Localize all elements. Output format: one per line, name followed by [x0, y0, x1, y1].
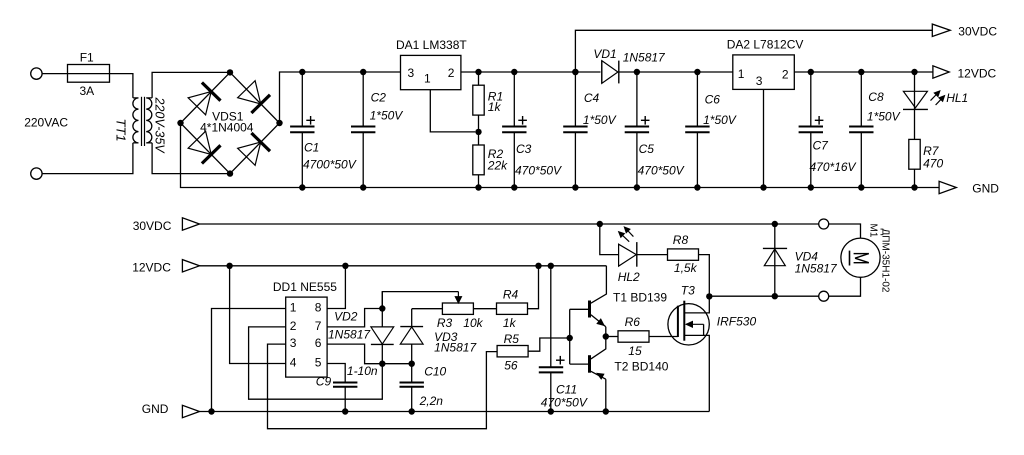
wire DA1 output to rail: [461, 71, 479, 73]
transformer TT1 primary winding: [133, 98, 139, 143]
capacitor C2 1*50V: [362, 72, 364, 127]
transistor T1 BD139: [588, 301, 591, 318]
node VD4 bottom junction: [772, 293, 778, 299]
potentiometer R3 10k: [442, 303, 473, 314]
svg-text:М1: М1: [868, 224, 879, 238]
node R1/R2 junction: [475, 129, 481, 135]
wire R3 wiper feedback: [382, 292, 458, 309]
svg-text:1N5817: 1N5817: [623, 51, 666, 65]
capacitor C4 1*50V: [574, 72, 576, 127]
resistor R6 15: [618, 331, 649, 342]
node VD4 top junction: [772, 221, 778, 227]
wire pin7 to discharge node: [327, 309, 382, 327]
svg-text:R4: R4: [503, 288, 519, 302]
transformer TT1 secondary winding: [146, 98, 152, 143]
resistor R7 470: [914, 109, 916, 139]
node bridge bottom junction: [227, 170, 233, 176]
30VDC output arrow: [932, 24, 950, 36]
svg-text:C3: C3: [516, 142, 532, 156]
GND output arrow: [939, 181, 956, 193]
svg-text:8: 8: [315, 301, 322, 315]
node T1/T2 emitters junction: [603, 333, 609, 339]
wire ground rail bottom: [200, 411, 710, 413]
svg-text:GND: GND: [142, 402, 169, 416]
wire pin4 to 12VDC: [230, 266, 286, 364]
capacitor C9 1-10n: [333, 382, 357, 384]
svg-text:R5: R5: [504, 332, 520, 346]
svg-text:6: 6: [315, 336, 322, 350]
svg-text:C11: C11: [556, 383, 577, 397]
wire pin8 to 12VDC: [327, 266, 345, 309]
svg-text:T3: T3: [681, 284, 695, 298]
svg-text:4: 4: [290, 356, 297, 370]
svg-text:12VDC: 12VDC: [958, 67, 997, 81]
bridge diode D4 (bottom-right edge): [238, 142, 261, 165]
svg-text:ДПМ-35Н1-02: ДПМ-35Н1-02: [880, 229, 891, 293]
svg-text:7: 7: [315, 319, 322, 333]
svg-text:2: 2: [782, 67, 789, 81]
wire secondary top to bridge: [152, 72, 230, 98]
svg-text:3: 3: [290, 336, 297, 350]
motor connector terminal bottom: [819, 291, 829, 301]
svg-text:VD1: VD1: [593, 47, 616, 61]
node VD2 cathode / pin6 junction: [379, 361, 385, 367]
timer DD1 NE555: [286, 297, 327, 377]
svg-text:5: 5: [315, 356, 322, 370]
svg-text:1N5817: 1N5817: [795, 262, 838, 276]
svg-text:C9: C9: [316, 374, 332, 388]
bridge diode D3 (left-bottom edge): [188, 131, 211, 154]
LED HL1: [914, 72, 916, 109]
svg-text:GND: GND: [972, 181, 999, 195]
wire 30VDC line: [200, 223, 819, 225]
svg-text:1-10n: 1-10n: [347, 364, 378, 378]
svg-text:1: 1: [424, 72, 431, 86]
capacitor C10 2,2n: [411, 364, 413, 383]
diode VD1 1N5817: [601, 61, 603, 84]
regulator DA2 L7812CV: [733, 55, 795, 90]
resistor R8 1,5k: [637, 254, 668, 256]
junction dots ground rail bottom section: [208, 408, 214, 414]
svg-text:1,5k: 1,5k: [674, 261, 698, 275]
wire drain node to motor: [709, 295, 818, 297]
diode VD4 1N5817: [774, 224, 776, 296]
node T3 drain junction: [706, 293, 712, 299]
svg-text:1k: 1k: [503, 316, 517, 330]
svg-text:F1: F1: [80, 50, 94, 64]
wire 12VDC line: [200, 265, 607, 267]
wire 30VDC feed line: [575, 30, 932, 72]
svg-text:4700*50V: 4700*50V: [303, 158, 357, 172]
node VD3 anode / C10 junction: [409, 361, 415, 367]
wire base drive node: [569, 309, 571, 364]
resistor R5 56: [497, 346, 528, 357]
12VDC output arrow: [933, 66, 949, 78]
svg-text:2,2n: 2,2n: [419, 394, 444, 408]
capacitor C1 4700*50V: [301, 72, 303, 127]
node bridge top junction: [227, 69, 233, 75]
capacitor C8 1*50V: [860, 72, 862, 127]
node A: AC input terminal top (220VAC): [31, 68, 42, 79]
svg-text:12VDC: 12VDC: [132, 260, 171, 274]
bridge diode D1 (left-top edge): [188, 92, 211, 115]
svg-text:30VDC: 30VDC: [133, 219, 172, 233]
svg-text:220V-35V: 220V-35V: [153, 97, 167, 155]
node bridge right junction (+): [276, 120, 282, 126]
node VD2 anode / pin7 junction: [379, 305, 385, 311]
transistor T2 BD140: [588, 355, 591, 373]
wire DA1 pin1 to R1/R2 node: [430, 90, 475, 132]
svg-text:C8: C8: [868, 90, 884, 104]
svg-text:C5: C5: [639, 142, 655, 156]
wire terminal bottom to transformer primary: [42, 143, 133, 174]
svg-text:3A: 3A: [80, 84, 95, 98]
svg-text:C6: C6: [705, 92, 721, 106]
wire bridge right node to top rail: [280, 72, 401, 123]
svg-text:1*50V: 1*50V: [583, 113, 617, 127]
svg-text:1*50V: 1*50V: [703, 113, 737, 127]
svg-text:30VDC: 30VDC: [958, 24, 997, 38]
wire to T2 base: [570, 363, 590, 365]
svg-text:R6: R6: [625, 315, 641, 329]
node B: AC input terminal bottom (220VAC): [31, 168, 42, 179]
svg-text:1N5817: 1N5817: [434, 341, 477, 355]
svg-text:DA1 LM338T: DA1 LM338T: [396, 38, 467, 52]
bridge rectifier VDS1 diamond: [181, 72, 280, 173]
svg-text:1: 1: [290, 301, 297, 315]
svg-text:2: 2: [290, 319, 297, 333]
svg-text:IRF530: IRF530: [717, 315, 757, 329]
svg-text:470: 470: [923, 157, 943, 171]
junction dots ground rail: [299, 184, 305, 190]
node bridge left junction (GND): [177, 120, 183, 126]
capacitor C5 470*50V: [636, 72, 638, 127]
resistor R1 1k: [478, 72, 480, 85]
wire pin5 to C9: [327, 364, 345, 383]
wire motor bottom to terminal: [829, 277, 861, 296]
svg-text:3: 3: [408, 66, 415, 80]
motor M1: [841, 238, 880, 277]
wire VD1 to DA2: [619, 71, 733, 73]
svg-text:1N5817: 1N5817: [328, 328, 371, 342]
wire pin6 to threshold node: [327, 344, 382, 364]
wire terminal to motor top: [829, 224, 861, 238]
svg-text:1*50V: 1*50V: [867, 109, 901, 123]
svg-text:2: 2: [448, 66, 455, 80]
motor connector terminal top: [819, 219, 829, 229]
svg-text:1k: 1k: [488, 100, 502, 114]
svg-text:C4: C4: [584, 91, 600, 105]
svg-text:DD1 NE555: DD1 NE555: [273, 280, 337, 294]
wire pin2 to trigger loop: [249, 327, 383, 399]
node R5 to bases junction: [567, 335, 573, 341]
node C4 / 30VDC takeoff: [572, 69, 578, 75]
svg-text:R3: R3: [437, 316, 453, 330]
svg-text:T1 BD139: T1 BD139: [613, 291, 667, 305]
bridge diode D2 (top-right edge): [238, 81, 261, 104]
svg-text:C10: C10: [424, 364, 446, 378]
resistor R2 22k: [478, 132, 480, 145]
LED HL2: [600, 224, 619, 255]
svg-text:R8: R8: [673, 233, 689, 247]
svg-text:220VAC: 220VAC: [24, 115, 68, 129]
svg-text:470*50V: 470*50V: [638, 164, 685, 178]
wire rail DA1 area to VD1: [479, 71, 601, 73]
wire bridge left node to ground rail: [181, 123, 940, 188]
wire secondary bottom to bridge: [152, 143, 230, 174]
svg-text:T2 BD140: T2 BD140: [614, 359, 668, 373]
svg-text:ТТ1: ТТ1: [114, 119, 129, 142]
svg-text:VD2: VD2: [334, 310, 358, 324]
diode VD3 1N5817: [411, 309, 413, 327]
svg-text:DA2 L7812CV: DA2 L7812CV: [727, 38, 804, 52]
wire fuse to transformer primary: [110, 74, 133, 98]
capacitor C7 470*16V: [810, 72, 812, 127]
svg-text:15: 15: [628, 344, 642, 358]
transistor T3 IRF530 MOSFET: [668, 304, 709, 345]
svg-text:HL1: HL1: [946, 91, 968, 105]
svg-text:56: 56: [504, 359, 518, 373]
wire terminal to fuse: [42, 73, 67, 75]
junction dots 12VDC line bottom section: [226, 263, 232, 269]
svg-text:C7: C7: [813, 138, 830, 152]
wire DA2 pin3 to ground rail: [763, 89, 765, 187]
wire pin1 to ground: [212, 309, 286, 412]
svg-text:470*50V: 470*50V: [541, 396, 588, 410]
svg-text:4*1N4004: 4*1N4004: [200, 120, 254, 134]
wire to T1 base: [570, 308, 590, 310]
junction dots top rail: [299, 69, 305, 75]
svg-text:C2: C2: [371, 91, 387, 105]
wire pin3 output to R5: [268, 344, 498, 429]
capacitor C3 470*50V: [513, 72, 515, 127]
node HL2 takeoff on 30VDC line: [597, 221, 603, 227]
svg-text:1*50V: 1*50V: [370, 108, 404, 122]
svg-text:22k: 22k: [487, 159, 508, 173]
svg-text:C1: C1: [304, 140, 319, 154]
wire DA2 output 12V rail: [794, 71, 933, 73]
resistor R4 1k: [497, 303, 528, 314]
op-amp regulator DA1 LM338T: [401, 55, 461, 89]
svg-text:470*16V: 470*16V: [810, 160, 857, 174]
diode VD2 1N5817: [381, 292, 383, 327]
svg-text:1: 1: [738, 67, 745, 81]
svg-text:470*50V: 470*50V: [515, 164, 562, 178]
fuse F1: [68, 73, 110, 75]
transformer TT1 core: [141, 97, 143, 146]
svg-text:3: 3: [756, 74, 763, 88]
wire node to C10: [382, 363, 411, 365]
capacitor C6 1*50V: [696, 72, 698, 127]
svg-text:HL2: HL2: [618, 270, 640, 284]
svg-text:10k: 10k: [463, 316, 483, 330]
capacitor C11 470*50V: [550, 266, 552, 367]
